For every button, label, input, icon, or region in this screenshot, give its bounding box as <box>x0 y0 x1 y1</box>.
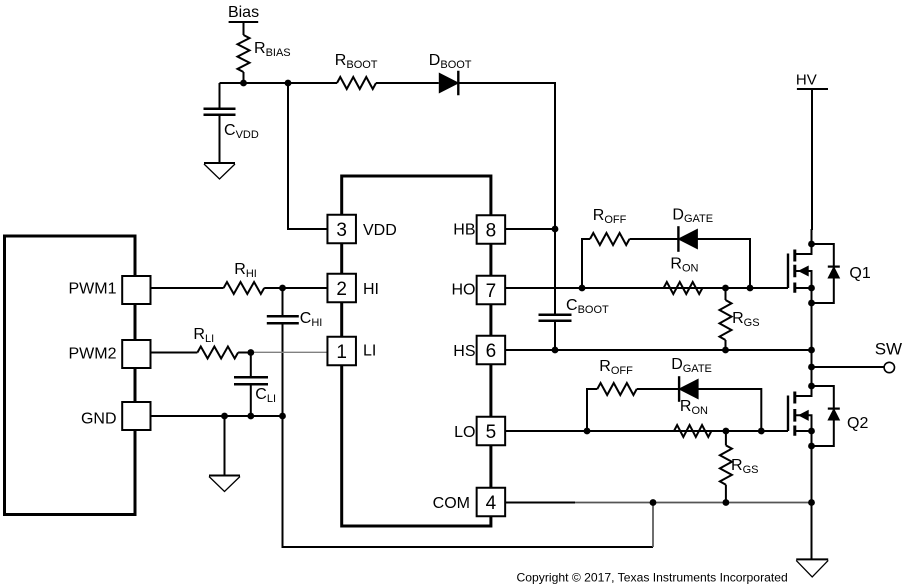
wire Q2 source to ground <box>811 446 813 559</box>
wire D_GATE to gate node low side <box>698 389 761 431</box>
junction dot C_LI bottom <box>247 413 254 420</box>
junction dot Q2 drain <box>808 383 815 390</box>
wire GND net horizontal <box>151 415 283 417</box>
resistor R_HI <box>224 282 265 294</box>
wire D_BOOT to HB rail <box>458 83 555 229</box>
junction dot VDD node B <box>285 80 292 87</box>
svg-text:HS: HS <box>453 343 475 360</box>
junction dot VDD node A <box>240 80 247 87</box>
wire PWM2 to R_LI <box>151 352 197 354</box>
transistor Q1 source lead <box>795 288 812 303</box>
capacitor C_BOOT <box>554 229 556 314</box>
wire SW stub <box>812 366 885 368</box>
svg-text:SW: SW <box>875 339 902 358</box>
wire pin8 to HB rail <box>505 228 555 230</box>
wire R_BOOT to D_BOOT <box>376 82 439 84</box>
wire R_OFF to D_GATE high side <box>630 238 679 240</box>
wire R_LI junction to pin 1 LI <box>238 352 251 354</box>
resistor R_GS high side <box>725 288 727 300</box>
svg-text:Bias: Bias <box>228 4 259 21</box>
junction dot R_GS bottom low side <box>723 499 730 506</box>
transistor Q1 gate bar <box>787 254 789 289</box>
wire COM net <box>505 502 575 504</box>
junction dot C_HI bottom <box>279 413 286 420</box>
controller box outline <box>5 236 136 515</box>
transistor Q2 drain lead <box>795 386 812 396</box>
junction dot COM loop return <box>650 499 657 506</box>
junction dot D_GATE return low side <box>758 428 765 435</box>
resistor R_BOOT <box>337 77 376 89</box>
wire VDD node horizontal <box>220 82 338 84</box>
wire bottom return loop to COM <box>283 416 654 547</box>
junction dot HS rail <box>808 347 815 354</box>
svg-text:HO: HO <box>452 282 476 299</box>
wire pin5 LO to Q2 gate <box>505 430 788 432</box>
svg-text:HI: HI <box>363 281 379 298</box>
transistor Q2 body arrow stub <box>795 415 812 431</box>
transistor Q2 channel dashes <box>793 392 796 436</box>
resistor R_GS low side <box>725 431 727 445</box>
capacitor C_LI <box>250 353 252 377</box>
ground symbol below C_VDD <box>204 162 235 164</box>
resistor R_LI <box>197 347 238 359</box>
port PWM1 box <box>122 276 150 304</box>
svg-text:PWM1: PWM1 <box>69 281 117 298</box>
junction dot HI node <box>279 285 286 292</box>
wire R_OFF to D_GATE low side <box>637 388 679 390</box>
junction dot Q1 drain <box>808 241 815 248</box>
junction dot LI node <box>247 349 254 356</box>
wire R_OFF riser bottom <box>587 389 597 431</box>
transistor Q2 body diode branch <box>812 386 834 446</box>
wire R_OFF riser top <box>582 239 590 288</box>
wire D_GATE to gate node high side <box>697 239 750 288</box>
junction dot D_GATE return high side <box>747 285 754 292</box>
capacitor C_VDD <box>219 83 221 108</box>
svg-text:8: 8 <box>486 220 497 241</box>
wire GND stem <box>224 416 226 475</box>
svg-text:PWM2: PWM2 <box>69 346 117 363</box>
svg-text:5: 5 <box>486 422 497 443</box>
svg-text:COM: COM <box>433 495 470 512</box>
junction dot R_GS top low side <box>723 428 730 435</box>
pin 8 box <box>477 215 506 244</box>
junction dot SW tap <box>808 364 815 371</box>
svg-text:Q1: Q1 <box>849 265 870 282</box>
svg-text:GND: GND <box>81 411 117 428</box>
ground symbol controller <box>209 475 240 477</box>
svg-text:7: 7 <box>486 281 497 302</box>
diode D_GATE high side <box>678 229 697 248</box>
ground symbol power stage <box>796 558 828 560</box>
resistor R_BIAS <box>238 35 250 72</box>
junction dot COM at Q2 source rail <box>808 499 815 506</box>
svg-text:1: 1 <box>336 342 347 363</box>
diode D_BOOT <box>439 73 458 92</box>
wire PWM1 to R_HI <box>151 287 224 289</box>
diode D_GATE low side <box>679 379 698 398</box>
transistor Q1 body diode branch <box>812 244 834 303</box>
wire pin7 HO to Q1 gate <box>505 287 788 289</box>
svg-text:LO: LO <box>454 424 475 441</box>
transistor Q1 body arrow stub <box>795 271 812 288</box>
svg-text:4: 4 <box>486 493 497 514</box>
svg-text:6: 6 <box>486 341 497 362</box>
port PWM2 box <box>122 340 150 368</box>
pin 6 box <box>477 336 506 365</box>
transistor Q1 body diode <box>828 267 839 278</box>
junction dot Q1 source <box>808 285 815 292</box>
resistor R_ON low side <box>674 425 711 437</box>
junction dot LO R_OFF tap <box>584 428 591 435</box>
node SW terminal circle <box>884 362 894 372</box>
wire R_HI to pin 2 <box>264 287 327 289</box>
resistor R_OFF high side <box>590 233 629 245</box>
junction dot Q1 body return <box>808 300 815 307</box>
pin 4 box <box>477 488 506 517</box>
svg-text:2: 2 <box>336 279 347 300</box>
transistor Q2 gate bar <box>787 396 789 432</box>
wire VDD to pin 3 <box>288 83 327 229</box>
pin 2 box <box>327 274 356 303</box>
transistor Q1 channel dashes <box>793 250 796 293</box>
junction dot HO R_OFF tap <box>579 285 586 292</box>
transistor Q2 body diode <box>828 409 839 420</box>
svg-text:3: 3 <box>336 220 347 241</box>
svg-text:LI: LI <box>363 343 376 360</box>
transistor Q1 drain lead <box>795 244 812 254</box>
svg-text:HB: HB <box>453 222 475 239</box>
pin 7 box <box>477 276 506 305</box>
port GND box <box>122 402 150 430</box>
pin 5 box <box>477 417 506 446</box>
resistor R_OFF low side <box>597 383 636 395</box>
svg-text:HV: HV <box>796 72 817 89</box>
svg-text:Copyright © 2017, Texas Instru: Copyright © 2017, Texas Instruments Inco… <box>517 571 788 585</box>
junction dot HB node <box>552 226 559 233</box>
junction dot HS at C_BOOT <box>552 347 559 354</box>
junction dot Q2 source <box>808 428 815 435</box>
pin 1 box <box>327 337 356 366</box>
capacitor C_HI <box>282 288 284 316</box>
IC U1 outline <box>342 176 491 526</box>
svg-text:VDD: VDD <box>363 222 397 239</box>
transistor Q2 source lead <box>795 431 812 446</box>
junction dot R_GS top high side <box>722 285 729 292</box>
svg-text:Q2: Q2 <box>847 415 868 432</box>
wire pin6 HS to rail <box>505 349 812 351</box>
wire HV to Q1 drain <box>811 89 814 254</box>
junction dot Q2 body return <box>808 443 815 450</box>
junction dot R_GS bottom high side <box>722 347 729 354</box>
wire Q1 source to SW rail <box>811 303 813 396</box>
junction dot GND stem <box>221 413 228 420</box>
pin 3 box <box>327 215 356 244</box>
resistor R_ON high side <box>664 282 703 294</box>
